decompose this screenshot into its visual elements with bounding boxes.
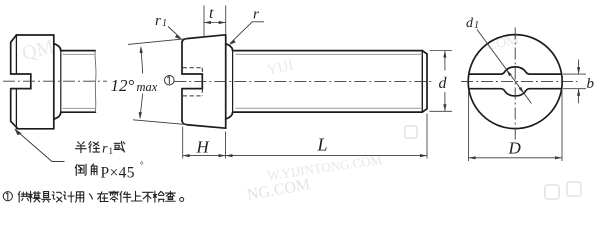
head outer face (left), broken by slot [10, 42, 12, 121]
fillet r bottom [226, 112, 233, 119]
head bottom-left corner radius [182, 120, 188, 125]
angular dimension arc [140, 49, 143, 117]
svg-text:b: b [587, 76, 595, 92]
head right face [53, 35, 55, 129]
fillet bottom [54, 112, 61, 119]
d1 arrow lower-right [519, 87, 525, 94]
svg-text:t: t [209, 5, 214, 22]
slot upper line with boss bump [469, 67, 562, 74]
slot lower line with boss bump [469, 89, 562, 96]
shank bottom edge [233, 111, 423, 113]
svg-text:P×45: P×45 [101, 165, 135, 182]
svg-text:r: r [253, 7, 259, 23]
fillet r top [226, 44, 233, 51]
svg-text:r: r [102, 142, 108, 157]
watermark marks [20, 32, 581, 203]
d1 arrow upper-left [506, 70, 512, 77]
svg-text:r: r [155, 13, 161, 29]
slot notch [182, 74, 202, 89]
head right face [225, 35, 227, 128]
angle extension line upper (taper extended) [128, 39, 186, 45]
shank top edge [61, 50, 95, 52]
svg-text:H: H [196, 138, 211, 157]
d dimension (shank) [430, 51, 453, 112]
svg-text:1: 1 [109, 146, 114, 156]
hidden slot lines (dashed) [183, 68, 203, 96]
head outer face, broken by slot [181, 43, 183, 121]
svg-text:max: max [137, 80, 158, 94]
leader for radius/chamfer note [16, 131, 64, 162]
slot notch [11, 74, 31, 89]
footnote: (1) 供模具设计用、在零件上不检查。 [3, 192, 12, 201]
head bottom-left chamfer [11, 121, 18, 129]
shank top edge [233, 50, 423, 52]
head circle D [468, 35, 562, 129]
shank end face [426, 54, 428, 109]
shank bottom edge [61, 111, 96, 113]
vertical centerline (circle view) [514, 28, 516, 142]
svg-text:1: 1 [162, 18, 167, 29]
svg-text:d: d [466, 16, 474, 31]
svg-text:°: ° [140, 160, 144, 170]
fillet tangent line [60, 51, 62, 113]
fillet top (head to shank) [54, 44, 61, 51]
head top-left chamfer [11, 35, 17, 42]
thread minor-diameter lines (main view) [236, 54, 423, 108]
t dimension [204, 6, 226, 37]
svg-text:L: L [317, 135, 328, 155]
svg-text:D: D [508, 139, 522, 158]
note text: 半径r1或 [76, 142, 100, 153]
leader arrowhead [14, 128, 21, 135]
svg-text:12°: 12° [111, 76, 135, 95]
b dimension [563, 60, 586, 104]
head bottom edge (tapered) [188, 125, 225, 128]
head bottom edge [18, 128, 54, 130]
L dimension [226, 114, 428, 159]
arc arrowhead top [140, 46, 143, 54]
d1 diameter leader line [477, 30, 532, 104]
head top edge (tapered) [189, 35, 226, 39]
arc arrowhead bottom [139, 112, 142, 119]
H dimension [183, 127, 226, 159]
centerline (left view) [3, 80, 107, 82]
centerline (main view) [174, 80, 433, 82]
D dimension [469, 90, 562, 161]
head top-left corner radius r1 [182, 38, 189, 42]
break line (wavy) [94, 51, 97, 113]
end chamfer diagonals [422, 51, 427, 113]
svg-text:1: 1 [474, 20, 479, 31]
angle extension line lower [133, 120, 187, 125]
head top edge [16, 34, 53, 36]
thread minor-diameter lines (left view) [63, 54, 96, 108]
horizontal centerline (circle view) [461, 81, 578, 83]
end chamfer edge line [421, 51, 423, 113]
fillet tangent line [232, 51, 234, 113]
svg-text:d: d [439, 75, 448, 92]
note text: 倒角P×45° [75, 164, 97, 176]
chamfer inner edge line [15, 35, 17, 129]
